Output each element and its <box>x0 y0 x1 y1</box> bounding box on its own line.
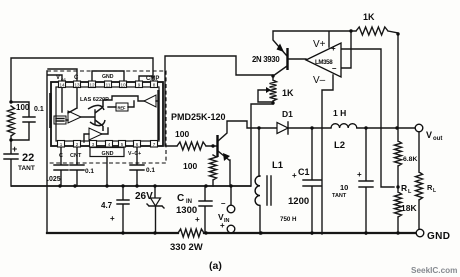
svg-text:26V: 26V <box>135 191 153 202</box>
svg-text:V: V <box>426 130 432 140</box>
svg-text:11: 11 <box>106 83 111 88</box>
svg-text:0.1: 0.1 <box>34 106 44 113</box>
svg-text:1K: 1K <box>363 12 375 22</box>
svg-text:+: + <box>292 171 297 180</box>
svg-text:7: 7 <box>153 142 156 147</box>
svg-text:GND: GND <box>102 151 114 157</box>
svg-text:13: 13 <box>74 83 80 88</box>
svg-text:TANT: TANT <box>332 193 347 199</box>
svg-text:2: 2 <box>76 142 79 147</box>
svg-text:C: C <box>177 193 184 204</box>
svg-text:+: + <box>357 170 362 179</box>
svg-text:1 H: 1 H <box>333 108 346 118</box>
svg-text:+: + <box>331 44 336 53</box>
svg-text:.025: .025 <box>47 176 61 183</box>
svg-text:1300: 1300 <box>176 205 197 216</box>
svg-text:1: 1 <box>60 142 63 147</box>
svg-text:TANT: TANT <box>18 165 35 172</box>
svg-text:V–: V– <box>313 75 326 86</box>
svg-text:8: 8 <box>153 83 156 88</box>
svg-text:L2: L2 <box>334 140 345 151</box>
svg-text:4.7: 4.7 <box>101 201 113 210</box>
svg-text:LAS 6220P: LAS 6220P <box>80 97 109 103</box>
svg-text:3: 3 <box>92 142 95 147</box>
svg-text:V–C+: V–C+ <box>128 151 141 157</box>
svg-text:1200: 1200 <box>288 196 309 207</box>
svg-text:100: 100 <box>183 161 197 171</box>
svg-text:PMD25K-120: PMD25K-120 <box>171 112 226 122</box>
svg-text:C1: C1 <box>298 167 310 177</box>
svg-text:CNT: CNT <box>70 153 82 159</box>
svg-text:22: 22 <box>22 152 34 164</box>
svg-text:0.1: 0.1 <box>85 168 94 175</box>
svg-text:–: – <box>332 64 337 73</box>
svg-text:R: R <box>401 183 407 193</box>
svg-text:C: C <box>74 75 79 81</box>
svg-text:2N 3930: 2N 3930 <box>252 55 280 64</box>
svg-text:V: V <box>56 75 60 81</box>
svg-text:+: + <box>220 221 225 230</box>
svg-text:750 H: 750 H <box>280 216 297 223</box>
svg-text:GND: GND <box>427 231 450 242</box>
svg-text:0.1: 0.1 <box>146 167 155 174</box>
svg-text:6.8K: 6.8K <box>403 156 417 163</box>
svg-text:14: 14 <box>59 83 65 88</box>
svg-text:12: 12 <box>89 83 95 88</box>
svg-text:100: 100 <box>175 129 189 139</box>
svg-text:out: out <box>433 136 442 142</box>
svg-text:CMP: CMP <box>146 76 159 82</box>
svg-text:–: – <box>221 199 226 208</box>
svg-text:+: + <box>195 215 200 224</box>
svg-text:4: 4 <box>108 142 111 147</box>
svg-text:1K: 1K <box>282 88 294 98</box>
svg-text:SeekIC.com: SeekIC.com <box>411 266 457 275</box>
svg-text:REF: REF <box>118 106 126 111</box>
svg-text:330 2W: 330 2W <box>170 242 203 253</box>
svg-text:L1: L1 <box>272 160 284 171</box>
svg-text:D1: D1 <box>282 109 293 119</box>
svg-text:V+: V+ <box>313 39 326 50</box>
svg-text:18K: 18K <box>401 203 417 213</box>
svg-text:6: 6 <box>136 142 139 147</box>
svg-text:9: 9 <box>138 83 141 88</box>
svg-text:+: + <box>110 214 115 223</box>
svg-text:100: 100 <box>16 103 30 112</box>
svg-text:10: 10 <box>340 183 348 192</box>
svg-text:L: L <box>433 188 436 194</box>
svg-text:GND: GND <box>102 74 114 80</box>
svg-text:C: C <box>59 153 63 159</box>
svg-text:10: 10 <box>120 83 126 88</box>
svg-text:+: + <box>12 144 17 154</box>
svg-text:LM358: LM358 <box>315 59 333 66</box>
svg-text:IN: IN <box>224 218 230 224</box>
svg-text:cc: cc <box>61 77 67 82</box>
svg-text:(a): (a) <box>209 260 222 272</box>
svg-text:5: 5 <box>121 142 124 147</box>
